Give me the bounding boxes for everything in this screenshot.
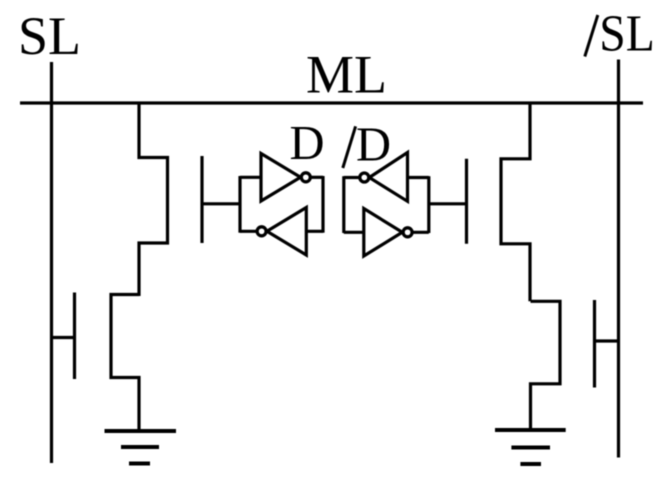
inverter U2 (bottom left, points left) bbox=[257, 208, 306, 256]
svg-text:SL: SL bbox=[18, 6, 81, 66]
wire SL to gate of Q3 bbox=[52, 336, 75, 339]
wire ML (match line, horizontal) bbox=[20, 101, 643, 104]
wire /SL (right search line, vertical) bbox=[617, 60, 620, 458]
wire U4 output to right bus bbox=[413, 231, 429, 234]
wire gate of Q1 to node D latch bbox=[202, 202, 240, 205]
node D left bus wire bbox=[238, 176, 241, 233]
svg-text:SL: SL bbox=[599, 5, 655, 62]
wire U2 output to D bus bbox=[240, 230, 257, 233]
wire U1 output to /D-side bus bbox=[311, 176, 323, 179]
svg-text:D: D bbox=[290, 117, 325, 170]
transistor Q4 gate bar bbox=[593, 300, 596, 388]
svg-text:ML: ML bbox=[306, 44, 387, 104]
label /D bbox=[343, 119, 391, 172]
wire left bus to inverter U4 input bbox=[344, 231, 364, 234]
transistor Q3 channel (left lower, gate from SL) bbox=[111, 295, 139, 432]
node internal right bus of left latch bbox=[321, 176, 324, 233]
wire U3 input to right bus bbox=[408, 176, 429, 179]
svg-text:D: D bbox=[356, 119, 391, 172]
ground symbol left bbox=[105, 431, 177, 464]
transistor Q2 channel (right upper, drain to ML) bbox=[501, 103, 530, 301]
ground symbol right bbox=[495, 430, 566, 464]
transistor Q1 gate bar bbox=[200, 156, 203, 243]
wire SL (left search line, vertical) bbox=[50, 62, 53, 463]
inverter U1 (top left, points right) bbox=[261, 154, 310, 202]
wire bus to inverter U2 input bbox=[306, 230, 323, 233]
label /SL bbox=[585, 5, 655, 62]
wire D bus to inverter U1 input bbox=[240, 176, 261, 179]
inverter U3 (top right, points left) bbox=[360, 153, 408, 202]
node right bus of right latch bbox=[427, 176, 430, 233]
inverter U4 (bottom right, points right) bbox=[364, 209, 412, 257]
transistor Q3 gate bar bbox=[73, 293, 76, 380]
wire right latch bus to gate of Q2 bbox=[429, 202, 467, 205]
transistor Q2 gate bar bbox=[465, 159, 468, 244]
wire /SL to gate of Q4 bbox=[595, 339, 619, 342]
wire /D bus to inverter U3 output bubble bbox=[344, 176, 360, 179]
transistor Q1 channel (left upper, drain to ML, source down) bbox=[139, 103, 168, 296]
node /D latch left bus wire bbox=[342, 176, 345, 233]
transistor Q4 channel (right lower, gate from /SL) bbox=[531, 301, 561, 429]
